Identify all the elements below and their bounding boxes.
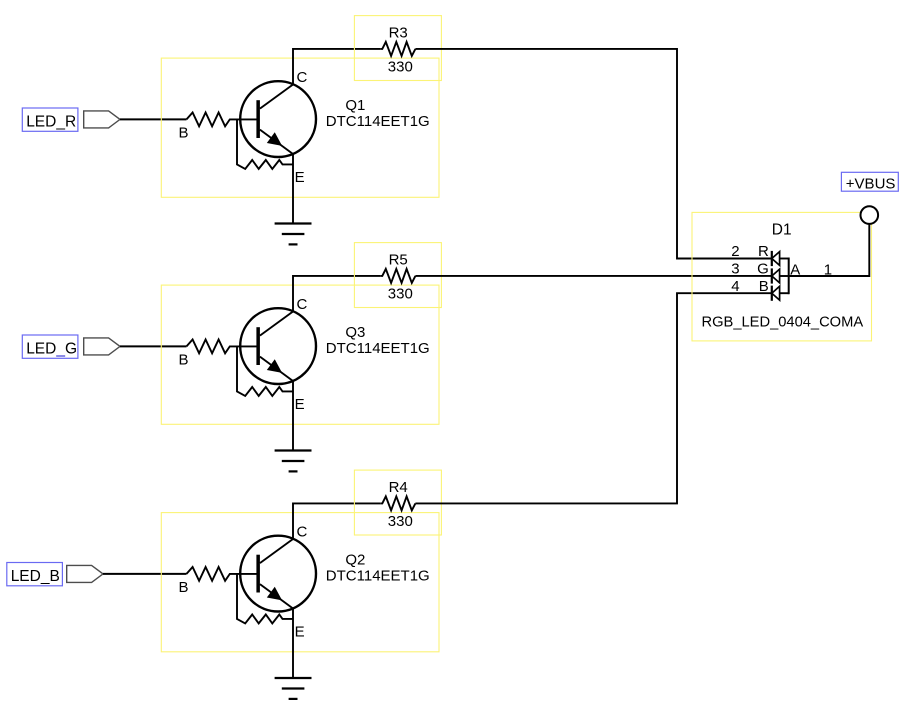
svg-text:LED_R: LED_R (26, 113, 76, 130)
wire Q2 collector to R4 (293, 503, 380, 539)
svg-text:DTC114EET1G: DTC114EET1G (326, 568, 430, 585)
svg-text:E: E (295, 623, 305, 640)
svg-text:Q1: Q1 (345, 97, 365, 114)
svg-text:Q3: Q3 (345, 324, 365, 341)
LED D1 component box (692, 212, 872, 341)
svg-text:D1: D1 (772, 221, 792, 238)
svg-text:R5: R5 (389, 252, 408, 269)
svg-text:R: R (758, 243, 769, 260)
wire D1 pin 1 to +VBUS (789, 224, 870, 276)
wire Q1 emitter to ground (292, 154, 294, 223)
svg-text:B: B (179, 125, 189, 142)
transistor Q1 (DTC114EET1G) (161, 58, 439, 197)
power port +VBUS (861, 206, 879, 224)
transistor Q3 (DTC114EET1G) (161, 285, 439, 424)
svg-text:R4: R4 (389, 479, 408, 496)
net label LED_R (22, 108, 78, 131)
svg-text:4: 4 (731, 278, 739, 295)
wire LED_R to Q1 base (120, 118, 187, 120)
svg-text:RGB_LED_0404_COMA: RGB_LED_0404_COMA (702, 315, 864, 331)
port flag LED_G (84, 338, 120, 355)
port flag LED_B (67, 565, 103, 582)
svg-text:2: 2 (731, 243, 739, 260)
svg-text:R3: R3 (389, 25, 408, 42)
wire R5 to D1 pin 3 (415, 275, 771, 277)
svg-text:330: 330 (388, 513, 413, 530)
svg-text:+VBUS: +VBUS (846, 175, 896, 192)
LED element green (D1) (772, 268, 789, 283)
ground symbol (Q3) (275, 451, 312, 472)
wire Q1 collector to R3 (293, 49, 380, 85)
wire Q3 emitter to ground (292, 381, 294, 450)
svg-text:330: 330 (388, 58, 413, 75)
svg-text:E: E (295, 169, 305, 186)
wire R3 to D1 pin 2 (415, 49, 771, 259)
svg-text:LED_G: LED_G (26, 340, 77, 357)
svg-text:C: C (297, 296, 308, 313)
wire LED_G to Q3 base (120, 345, 187, 347)
wire Q3 collector to R5 (293, 276, 380, 312)
wire D1 anode bracket (788, 258, 790, 295)
svg-text:B: B (179, 352, 189, 369)
LED element blue (D1) (772, 286, 789, 301)
wire Q2 emitter to ground (292, 609, 294, 678)
resistor R5 (354, 243, 441, 308)
net label LED_B (7, 563, 63, 586)
svg-text:E: E (295, 396, 305, 413)
net label LED_G (22, 335, 78, 358)
svg-text:DTC114EET1G: DTC114EET1G (326, 113, 430, 130)
svg-text:G: G (757, 261, 769, 278)
ground symbol (Q1) (275, 224, 312, 245)
transistor Q2 (DTC114EET1G) (161, 513, 439, 652)
svg-text:LED_B: LED_B (11, 568, 60, 585)
wire R4 to D1 pin 4 (415, 293, 771, 503)
svg-text:3: 3 (731, 261, 739, 278)
LED element red (D1) (772, 251, 789, 266)
resistor R4 (354, 470, 441, 535)
svg-text:DTC114EET1G: DTC114EET1G (326, 340, 430, 357)
wire LED_B to Q2 base (103, 573, 187, 575)
svg-text:Q2: Q2 (345, 552, 365, 569)
svg-text:C: C (297, 523, 308, 540)
svg-text:B: B (759, 278, 769, 295)
port flag LED_R (84, 111, 120, 128)
svg-text:330: 330 (388, 285, 413, 302)
svg-text:C: C (297, 69, 308, 86)
svg-text:B: B (179, 579, 189, 596)
net label +VBUS (841, 172, 898, 192)
resistor R3 (354, 16, 441, 81)
ground symbol (Q2) (275, 678, 312, 699)
